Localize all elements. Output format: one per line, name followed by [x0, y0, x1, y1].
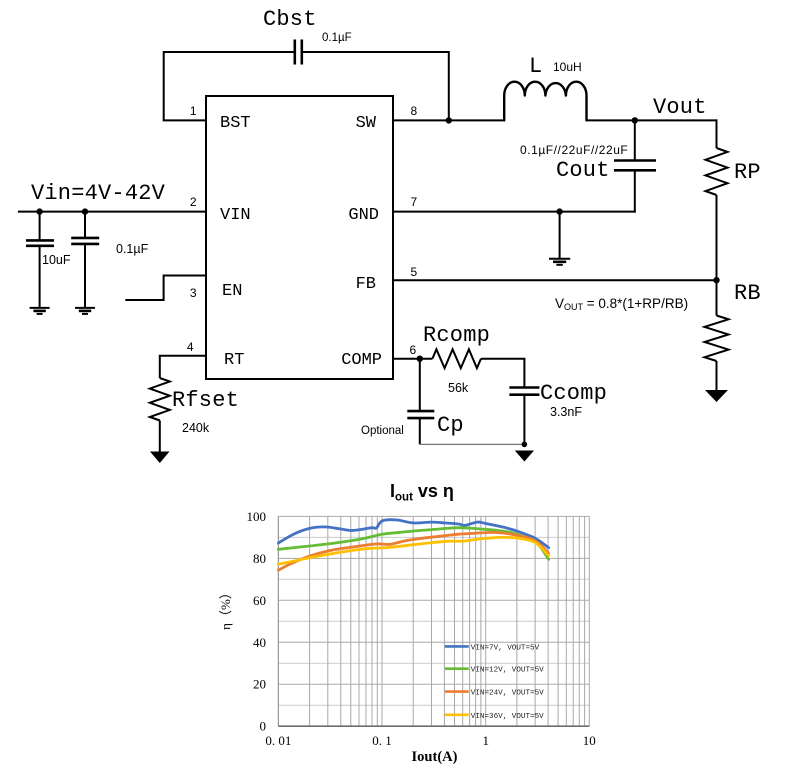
- svg-text:L: L: [529, 54, 542, 79]
- svg-text:Optional: Optional: [361, 425, 404, 437]
- svg-text:VIN=7V, VOUT=5V: VIN=7V, VOUT=5V: [471, 644, 540, 652]
- wire Cp-to-Ccomp bottom return: [420, 443, 525, 445]
- wire vertical left of Cbst down to BST pin: [163, 51, 165, 120]
- svg-text:5: 5: [411, 265, 418, 279]
- svg-text:FB: FB: [356, 275, 376, 294]
- chart x tick labels: [265, 733, 595, 748]
- svg-text:VIN=36V, VOUT=5V: VIN=36V, VOUT=5V: [471, 713, 544, 721]
- wire Ccomp bottom down: [523, 395, 525, 445]
- svg-text:6: 6: [410, 343, 417, 357]
- svg-text:0. 01: 0. 01: [265, 733, 291, 748]
- svg-text:SW: SW: [356, 114, 377, 133]
- wire EN step input: [125, 276, 206, 301]
- svg-text:20: 20: [253, 677, 266, 692]
- wire FB node down to RB: [716, 280, 718, 315]
- chart y tick labels: [247, 509, 267, 734]
- svg-text:Vout: Vout: [653, 95, 707, 120]
- svg-text:1: 1: [482, 733, 489, 748]
- inductor L symbol: [504, 82, 586, 121]
- chart gridlines minor horizontal: [278, 537, 589, 705]
- svg-text:COMP: COMP: [341, 351, 382, 370]
- svg-text:0: 0: [260, 719, 267, 734]
- svg-text:Ccomp: Ccomp: [540, 381, 607, 406]
- node junction FB/RP/RB: [713, 277, 719, 283]
- resistor Rcomp: [432, 349, 481, 368]
- ground arrow below RB: [705, 390, 728, 402]
- svg-text:10uH: 10uH: [553, 60, 582, 74]
- ground symbol under C1: [30, 308, 50, 314]
- wire Cp bottom down: [419, 418, 421, 444]
- svg-text:VOUT = 0.8*(1+RP/RB): VOUT = 0.8*(1+RP/RB): [555, 296, 688, 312]
- node junction GND rail: [556, 208, 562, 214]
- svg-text:1: 1: [190, 104, 197, 118]
- capacitor Cout plates: [614, 161, 656, 171]
- wire BST pin stub: [163, 119, 206, 121]
- resistor RP: [706, 148, 728, 195]
- svg-text:10uF: 10uF: [42, 253, 71, 267]
- curve VIN=36V: [278, 537, 548, 564]
- chart gridlines major horizontal: [278, 516, 589, 684]
- svg-text:RP: RP: [734, 160, 761, 185]
- svg-text:80: 80: [253, 551, 266, 566]
- ground symbol GND rail: [549, 259, 570, 265]
- svg-text:RB: RB: [734, 281, 761, 306]
- svg-text:VIN=24V, VOUT=5V: VIN=24V, VOUT=5V: [471, 690, 544, 698]
- wire Rfset to ground: [159, 421, 161, 453]
- node junction Cout tap: [632, 117, 638, 123]
- wire Cout bottom to GND rail: [634, 170, 636, 212]
- svg-text:4: 4: [187, 340, 194, 354]
- wire RB to ground: [716, 361, 718, 391]
- svg-text:2: 2: [190, 195, 197, 209]
- node junction COMP/Cp: [417, 356, 423, 362]
- svg-text:Iout vs η: Iout vs η: [390, 481, 454, 504]
- svg-text:3.3nF: 3.3nF: [550, 405, 582, 419]
- svg-text:Iout(A): Iout(A): [412, 749, 458, 765]
- svg-text:60: 60: [253, 593, 266, 608]
- chart y-axis line: [277, 516, 279, 726]
- node junction SW/Cbst: [446, 117, 452, 123]
- svg-text:Cout: Cout: [556, 158, 610, 183]
- wire top BST-to-Cbst left segment: [164, 51, 294, 53]
- svg-text:Cp: Cp: [437, 413, 464, 438]
- wire inductor to Vout corner: [587, 119, 718, 121]
- IC U1 regulator body: [206, 96, 393, 379]
- svg-text:Cbst: Cbst: [263, 7, 317, 32]
- wire SW pin to inductor: [393, 119, 504, 121]
- svg-text:40: 40: [253, 635, 266, 650]
- chart gridlines vertical: [278, 516, 589, 726]
- wire VIN input rail: [18, 211, 206, 213]
- capacitor Cp plates: [407, 411, 434, 418]
- node junction input cap2: [82, 208, 88, 214]
- svg-text:0.1µF: 0.1µF: [116, 242, 149, 256]
- wire Cout top connection: [634, 120, 636, 160]
- svg-text:10: 10: [583, 733, 596, 748]
- curve VIN=12V: [278, 528, 548, 560]
- node junction comp ground: [522, 442, 528, 448]
- svg-text:VIN=12V, VOUT=5V: VIN=12V, VOUT=5V: [471, 667, 544, 675]
- resistor RB: [705, 316, 729, 362]
- wire Cbst-to-SW top segment: [302, 51, 449, 53]
- svg-text:7: 7: [411, 195, 418, 209]
- svg-text:3: 3: [190, 286, 197, 300]
- svg-text:100: 100: [247, 509, 267, 524]
- ground symbol under C2: [75, 308, 95, 314]
- svg-text:RT: RT: [224, 351, 244, 370]
- capacitor C-bst symbol plates: [295, 40, 302, 65]
- wire RP to FB node: [716, 195, 718, 280]
- wire Cp branch down: [419, 359, 421, 411]
- ground arrow below Ccomp: [515, 451, 534, 462]
- capacitor C1 10uF: [26, 212, 54, 307]
- svg-text:56k: 56k: [448, 381, 469, 395]
- svg-text:VIN: VIN: [220, 206, 251, 225]
- svg-text:0.1µF: 0.1µF: [322, 32, 352, 44]
- wire COMP pin stub: [393, 358, 432, 360]
- wire FB pin to divider: [393, 279, 717, 281]
- svg-text:240k: 240k: [182, 421, 210, 435]
- wire Vout down to RP: [716, 119, 718, 148]
- ground arrow below Rfset: [150, 452, 170, 464]
- capacitor C2 0.1uF: [71, 212, 99, 307]
- svg-text:η（%）: η（%）: [218, 586, 233, 630]
- svg-text:GND: GND: [348, 206, 379, 225]
- wire Rcomp to Ccomp: [481, 359, 524, 387]
- node junction input cap1: [36, 208, 42, 214]
- chart x-axis line: [278, 725, 589, 727]
- capacitor Ccomp plates: [509, 388, 539, 395]
- chart legend: [445, 644, 544, 720]
- svg-text:0.1µF//22uF//22uF: 0.1µF//22uF//22uF: [520, 143, 628, 157]
- svg-text:BST: BST: [220, 114, 251, 133]
- resistor Rfset: [150, 378, 170, 421]
- svg-text:EN: EN: [222, 282, 242, 301]
- svg-text:Rfset: Rfset: [172, 388, 239, 413]
- curve VIN=7V: [278, 520, 548, 548]
- svg-text:8: 8: [411, 104, 418, 118]
- wire GND junction down: [559, 212, 561, 258]
- wire RT pin to Rfset: [160, 356, 206, 378]
- curve VIN=24V: [278, 532, 548, 570]
- svg-text:0. 1: 0. 1: [372, 733, 392, 748]
- wire GND pin rail: [393, 211, 636, 213]
- svg-text:Rcomp: Rcomp: [423, 323, 490, 348]
- wire vertical Cbst right down to SW node: [448, 51, 450, 120]
- svg-text:Vin=4V-42V: Vin=4V-42V: [31, 181, 166, 206]
